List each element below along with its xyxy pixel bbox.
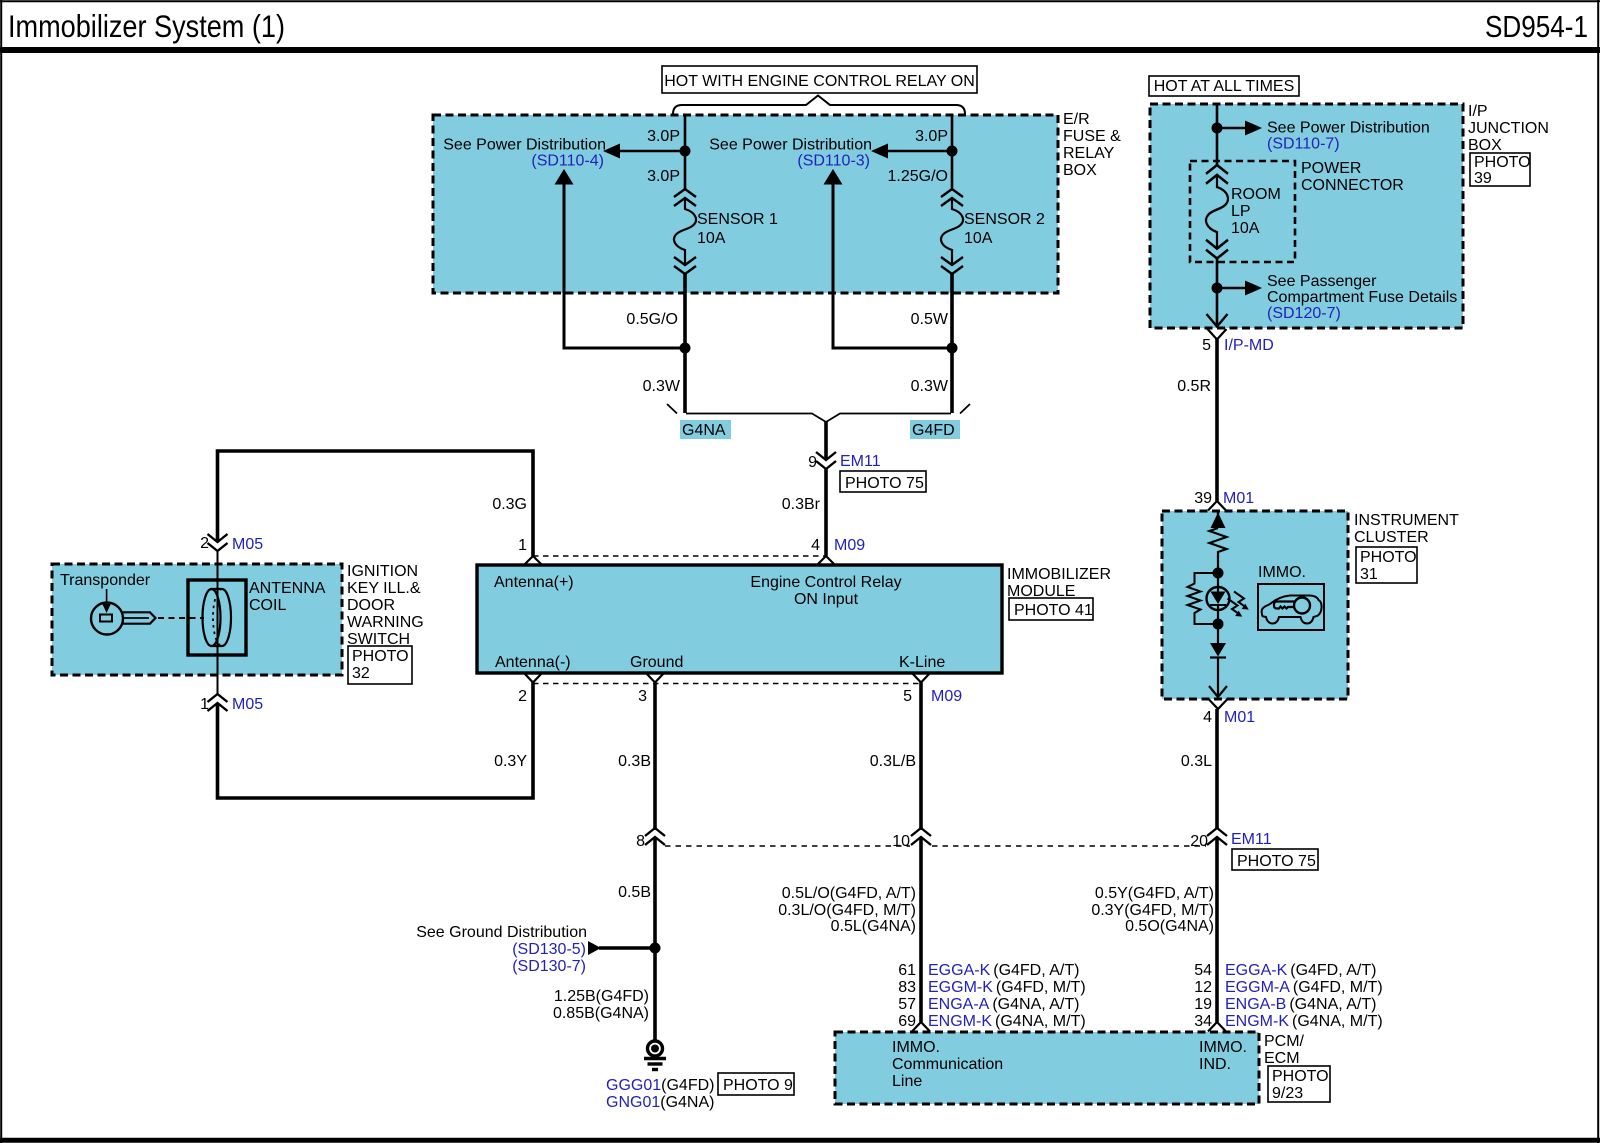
svg-text:EGGM-K(G4FD, M/T): EGGM-K(G4FD, M/T) [928,979,1086,996]
junction LED top [1213,568,1224,579]
svg-text:0.3L/B: 0.3L/B [870,753,916,770]
svg-text:ENGM-K(G4NA, M/T): ENGM-K(G4NA, M/T) [928,1013,1086,1030]
svg-text:54: 54 [1194,962,1212,979]
PCM/ECM box [835,1032,1259,1104]
svg-text:0.3G: 0.3G [492,496,527,513]
svg-text:4: 4 [811,537,820,554]
antenna coil L1 [188,580,246,655]
svg-text:0.5Y(G4FD, A/T): 0.5Y(G4FD, A/T) [1095,885,1214,902]
wire diode to cluster exit arrow [1209,658,1227,698]
svg-text:0.85B(G4NA): 0.85B(G4NA) [553,1005,649,1022]
svg-text:0.3Y(G4FD, M/T): 0.3Y(G4FD, M/T) [1091,902,1214,919]
svg-text:M01: M01 [1223,490,1254,507]
svg-text:Antenna(+): Antenna(+) [494,574,574,591]
wire arrow to See Power Distribution (SD110-4) [603,144,685,159]
svg-text:4: 4 [1203,709,1212,726]
immobilizer module box U1 [477,565,1002,673]
E/R fuse and relay box [433,115,1058,293]
svg-text:PCM/ECM: PCM/ECM [1264,1033,1305,1067]
svg-text:EM11: EM11 [1231,831,1272,848]
transponder key symbol [91,589,156,635]
svg-text:See Power Distribution: See Power Distribution [1267,120,1430,137]
svg-text:PHOTO 75: PHOTO 75 [845,475,924,492]
callout PHOTO 31 [1356,547,1417,583]
svg-text:E/RFUSE &RELAYBOX: E/RFUSE &RELAYBOX [1063,111,1121,179]
svg-text:G4NA: G4NA [682,422,726,439]
svg-text:83: 83 [898,979,916,996]
svg-text:PHOTO 75: PHOTO 75 [1237,853,1316,870]
svg-text:Antenna(-): Antenna(-) [495,654,571,671]
svg-text:See Power Distribution: See Power Distribution [443,137,606,154]
svg-text:0.3L/O(G4FD, M/T): 0.3L/O(G4FD, M/T) [778,902,916,919]
pin 4 Engine Control Relay ON Input [750,537,901,608]
junction at sensor1 feed [680,146,691,157]
svg-text:57: 57 [898,996,916,1013]
wire arrow to See Passenger Compartment Fuse Details (SD120-7) [1217,281,1262,296]
wire module pin1 up and left to antenna coil [218,451,534,556]
svg-text:69: 69 [898,1013,916,1030]
svg-text:0.3Br: 0.3Br [782,496,821,513]
svg-text:G4FD: G4FD [912,422,955,439]
fuse ROOM LP 10A [1206,165,1228,259]
dashed coupling line key to coil [158,617,204,619]
svg-text:5: 5 [903,688,912,705]
ground GGG01/GNG01 [644,1041,666,1070]
svg-text:I/P-MD: I/P-MD [1224,337,1274,354]
svg-text:SD954-1: SD954-1 [1485,9,1588,44]
svg-text:5: 5 [1202,337,1211,354]
svg-text:0.3W: 0.3W [911,378,949,395]
connector M05 pin 1 [200,694,263,713]
wire arrow from ground distribution [588,941,655,955]
svg-text:3.0P: 3.0P [647,128,680,145]
svg-text:IMMOBILIZERMODULE: IMMOBILIZERMODULE [1007,566,1111,600]
connector pin 10 [892,828,931,850]
inline harness dashed line [665,845,1206,847]
instrument cluster box [1162,511,1348,699]
pin 5 K-Line [899,654,962,705]
wire LED to diode [1217,624,1219,643]
pin 2 Antenna(-) [495,654,571,705]
svg-text:IMMO.: IMMO. [1258,564,1306,581]
wire arrow to See Power Distribution (SD110-7) [1217,121,1262,136]
svg-text:0.5B: 0.5B [618,884,651,901]
pin tent into PCM (IMMO. IND.) [1208,1022,1226,1032]
junction at sensor2 feed [947,146,958,157]
wire up-arrow to SD110-4 [555,169,686,348]
svg-text:0.5L(G4NA): 0.5L(G4NA) [831,918,916,935]
svg-text:ENGM-K(G4NA, M/T): ENGM-K(G4NA, M/T) [1225,1013,1383,1030]
wire I/P-MD to M01 [1215,339,1219,501]
svg-text:3.0P: 3.0P [647,168,680,185]
svg-text:M05: M05 [232,696,263,713]
label HOT WITH ENGINE CONTROL RELAY ON [662,66,977,93]
callout PHOTO 9 [718,1073,794,1095]
note See Ground Distribution (SD130-5)(SD130-7) [416,924,587,975]
diode in cluster [1210,643,1226,658]
svg-text:0.5G/O: 0.5G/O [626,311,678,328]
svg-text:2: 2 [518,688,527,705]
wire: sensor2 feed from box top to fuse [951,115,954,189]
svg-text:EM11: EM11 [840,453,881,470]
svg-text:10: 10 [892,833,910,850]
svg-text:0.3Y: 0.3Y [494,753,527,770]
net tag G4NA [680,420,731,439]
wire module pin3 down [653,683,657,831]
svg-text:(SD130-5): (SD130-5) [512,941,586,958]
connector EM11 pin 9 [808,452,881,471]
svg-text:1.25G/O: 1.25G/O [888,168,948,185]
pin tent into PCM (IMMO. Communication Line) [912,1022,930,1032]
junction LED bottom [1213,619,1224,630]
svg-text:61: 61 [898,962,916,979]
svg-text:Immobilizer System (1): Immobilizer System (1) [8,8,285,44]
svg-text:INSTRUMENTCLUSTER: INSTRUMENTCLUSTER [1354,512,1459,546]
svg-text:39: 39 [1194,490,1212,507]
connector M01 pin 4 [1203,700,1255,727]
wire module pin5 down [919,683,923,831]
module connector dashed line top [533,555,826,557]
svg-text:HOT AT ALL TIMES: HOT AT ALL TIMES [1154,78,1295,95]
svg-text:34: 34 [1194,1013,1212,1030]
svg-text:1: 1 [518,537,527,554]
svg-text:8: 8 [636,833,645,850]
POWER CONNECTOR box [1190,161,1295,262]
svg-text:0.3L: 0.3L [1181,753,1212,770]
svg-text:M05: M05 [232,536,263,553]
svg-text:EGGM-A(G4FD, M/T): EGGM-A(G4FD, M/T) [1225,979,1383,996]
svg-text:IGNITIONKEY ILL.&DOORWARNINGSW: IGNITIONKEY ILL.&DOORWARNINGSWITCH [347,563,424,648]
svg-text:(SD110-3): (SD110-3) [797,153,870,170]
svg-text:PHOTO 41: PHOTO 41 [1014,602,1093,619]
connector I/P-MD pin 5 [1202,329,1274,354]
callout PHOTO 32 [348,646,412,684]
wire coil return loop to module pin 2 [218,683,534,799]
svg-text:See Passenger: See Passenger [1267,273,1377,290]
wire: sensor1 feed from box top to fuse [684,115,687,189]
wire up-arrow to SD110-3 [824,169,953,348]
wire arrow to See Power Distribution (SD110-3) [871,144,952,159]
connector M05 pin 2 [200,534,263,553]
wire battery feed in I/P box [1216,104,1219,166]
svg-text:Transponder: Transponder [60,572,151,589]
svg-text:(SD130-7): (SD130-7) [512,958,586,975]
svg-text:0.5L/O(G4FD, A/T): 0.5L/O(G4FD, A/T) [782,885,916,902]
svg-text:HOT WITH ENGINE CONTROL RELAY: HOT WITH ENGINE CONTROL RELAY ON [664,73,975,90]
wire entering cluster with arrow [1211,511,1226,528]
svg-text:EGGA-K(G4FD, A/T): EGGA-K(G4FD, A/T) [928,962,1079,979]
svg-text:0.3W: 0.3W [643,378,681,395]
svg-text:(SD110-7): (SD110-7) [1267,136,1340,153]
wire sensor1 below fuse [683,273,687,413]
svg-text:ENGA-B(G4NA, A/T): ENGA-B(G4NA, A/T) [1225,996,1376,1013]
svg-text:0.5R: 0.5R [1177,378,1211,395]
fuse SENSOR 1 10A [674,189,696,274]
svg-text:I/PJUNCTIONBOX: I/PJUNCTIONBOX [1468,103,1549,154]
svg-text:M09: M09 [834,537,865,554]
svg-text:PHOTO 9: PHOTO 9 [723,1077,793,1094]
junction sensor2 / SD110-3 branch [947,343,958,354]
brace under hot label [673,96,965,115]
LED emission arrows [1228,592,1249,617]
svg-text:ENGA-A(G4NA, A/T): ENGA-A(G4NA, A/T) [928,996,1079,1013]
callout PHOTO 39 [1470,153,1531,187]
svg-text:1.25B(G4FD): 1.25B(G4FD) [554,988,649,1005]
callout PHOTO 75 (EM11 pin20) [1232,849,1318,870]
callout PHOTO 41 [1009,598,1093,620]
svg-text:Compartment Fuse Details: Compartment Fuse Details [1267,289,1457,306]
label HOT AT ALL TIMES [1149,76,1299,96]
svg-text:3.0P: 3.0P [915,128,948,145]
svg-text:0.5W: 0.5W [911,311,949,328]
callout PHOTO 9/23 [1268,1066,1330,1102]
svg-text:Ground: Ground [630,654,683,671]
pin 1 Antenna(+) [494,537,574,591]
svg-text:See Ground Distribution: See Ground Distribution [416,924,587,941]
wire EM11 to module pin 4 [824,469,828,556]
resistor in cluster (series) [1210,528,1227,573]
module connector dashed line bottom [533,683,921,685]
svg-text:12: 12 [1194,979,1212,996]
connector M01 pin 39 [1194,490,1254,511]
junction to SD110-7 [1212,123,1223,134]
wire M01 pin4 to EM11 pin20 [1215,709,1219,829]
svg-text:See Power Distribution: See Power Distribution [709,137,872,154]
junction to SD120-7 [1212,283,1223,294]
connector EM11 pin 20 [1190,828,1272,850]
wire through coil [217,551,219,694]
svg-text:(SD110-4): (SD110-4) [531,153,604,170]
svg-text:M01: M01 [1224,709,1255,726]
resistor parallel with LED [1188,573,1219,624]
junction sensor1 / SD110-4 branch [680,343,691,354]
wire pin8 to ground [653,837,657,1042]
callout PHOTO 75 (EM11) [840,471,926,492]
svg-text:20: 20 [1190,833,1208,850]
svg-text:GNG01(G4NA): GNG01(G4NA) [606,1094,714,1111]
I/P junction box [1150,104,1463,328]
pin 3 Ground [630,654,683,705]
transponder / antenna coil box [52,564,342,675]
svg-text:0.3B: 0.3B [618,753,651,770]
connector pin 8 [636,828,665,850]
svg-text:3: 3 [638,688,647,705]
svg-text:ON Input: ON Input [794,591,859,608]
IMMO indicator icon (car with key) [1258,584,1324,630]
header rule [0,47,1600,53]
LED lamp IMMO. indicator [1207,577,1230,620]
svg-text:M09: M09 [931,688,962,705]
junction ground distribution [650,943,661,954]
fuse SENSOR 2 10A [941,189,963,274]
svg-text:K-Line: K-Line [899,654,945,671]
pin labels PCM right column [1194,962,1382,1030]
net tag G4FD [910,420,960,439]
svg-text:0.5O(G4NA): 0.5O(G4NA) [1125,918,1214,935]
svg-text:EGGA-K(G4FD, A/T): EGGA-K(G4FD, A/T) [1225,962,1376,979]
wire EM11 pin20 to PCM [1215,837,1219,1022]
pin labels PCM left column [898,962,1085,1030]
wire pin10 to PCM [919,837,923,1022]
wire below room lp fuse [1216,257,1219,326]
svg-text:9: 9 [808,454,817,471]
svg-text:(SD120-7): (SD120-7) [1267,305,1341,322]
svg-text:Engine Control Relay: Engine Control Relay [750,574,901,591]
svg-text:GGG01(G4FD): GGG01(G4FD) [606,1077,714,1094]
wire exit arrow at I/P box bottom [1207,314,1228,327]
wire merge of G4NA/G4FD engine variants [667,404,970,460]
svg-text:19: 19 [1194,996,1212,1013]
wire sensor2 below fuse [950,273,954,413]
